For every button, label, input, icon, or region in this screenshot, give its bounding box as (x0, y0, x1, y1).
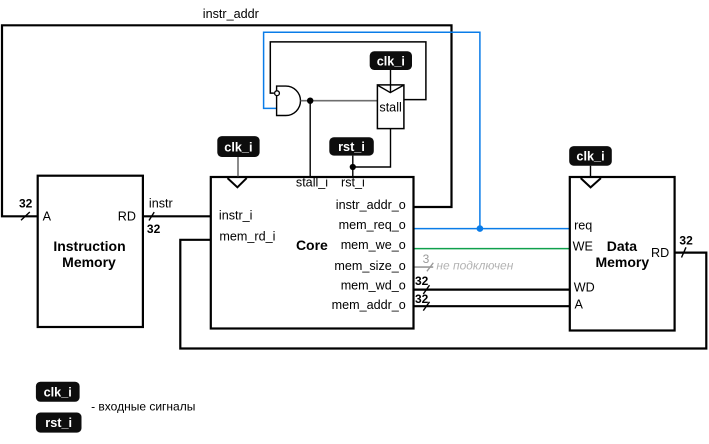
svg-text:32: 32 (679, 233, 693, 247)
svg-text:instr_addr_o: instr_addr_o (336, 198, 406, 212)
svg-text:clk_i: clk_i (44, 385, 72, 399)
node clock chevron stall (378, 85, 404, 92)
svg-text:rst_i: rst_i (338, 140, 365, 154)
svg-text:mem_rd_i: mem_rd_i (219, 230, 275, 244)
wire stall reg feedback (stall.Q -> AND inverted input) (270, 42, 426, 100)
node slash mem_addr bus (423, 302, 429, 311)
svg-text:3: 3 (423, 252, 430, 266)
svg-text:clk_i: clk_i (576, 150, 604, 164)
wire gate output (gray, to stall.D) (301, 100, 378, 102)
node slash instr bus (149, 212, 154, 220)
wire instr net (IM.RD -> Core.instr_i) (143, 215, 211, 217)
svg-text:RD: RD (651, 246, 669, 260)
port clk_i label (stall) (370, 51, 412, 70)
wire mem_wd net (Core.mem_wd_o -> DM.WD) (414, 289, 570, 291)
svg-text:Memory: Memory (62, 254, 116, 270)
port clk_i label (Core) (217, 136, 259, 157)
wire rst_i -> Core (352, 156, 354, 177)
svg-text:32: 32 (147, 222, 161, 236)
wire stall_i (junction -> Core.stall_i) (309, 101, 311, 177)
svg-text:Core: Core (296, 237, 328, 253)
svg-text:instr_i: instr_i (219, 208, 253, 222)
svg-text:mem_size_o: mem_size_o (334, 259, 405, 273)
svg-text:WE: WE (573, 240, 593, 254)
svg-text:RD: RD (118, 209, 136, 223)
wire mem_we net green (Core.mem_we_o -> DM.WE) (414, 248, 570, 250)
svg-text:clk_i: clk_i (377, 54, 405, 68)
svg-text:Memory: Memory (595, 254, 649, 270)
node slash A bus (21, 212, 30, 220)
node slash RD bus (682, 247, 687, 257)
port clk_i label (DM) (569, 146, 612, 166)
node clock chevron Core (228, 178, 247, 187)
node slash mem_size bus (427, 263, 433, 272)
wire rst branch -> stall reset (353, 129, 391, 167)
svg-text:32: 32 (415, 274, 429, 288)
svg-text:rst_i: rst_i (341, 176, 365, 190)
block Data Memory (570, 177, 675, 331)
legend clk_i label (36, 382, 80, 402)
svg-text:stall_i: stall_i (296, 176, 328, 190)
node junction stall_i (307, 98, 313, 104)
and-gate U1 (with inverted top input) (277, 86, 301, 115)
wire clk to stall (390, 70, 392, 92)
svg-text:rst_i: rst_i (45, 416, 72, 430)
svg-text:не подключен: не подключен (436, 259, 513, 273)
svg-text:Instruction: Instruction (53, 238, 125, 254)
register stall (377, 85, 404, 129)
wire mem_size_o stub (not connected) (414, 266, 434, 268)
node bubble (inverted input) (275, 91, 280, 96)
wire mem_rd net (DM.RD -> Core.mem_rd_i) (180, 240, 706, 349)
node junction blue (477, 225, 484, 232)
legend rst_i label (36, 413, 82, 433)
svg-text:mem_wd_o: mem_wd_o (341, 279, 406, 293)
wire stall feedback blue loop (mem_req -> AND gate input) (264, 32, 480, 228)
svg-text:A: A (575, 297, 584, 311)
wire instr_addr net (Core.instr_addr_o -> Instruction Memory.A) (2, 25, 452, 216)
svg-text:mem_req_o: mem_req_o (339, 218, 406, 232)
wire clk to Core (gray) (237, 157, 239, 176)
svg-text:clk_i: clk_i (224, 140, 252, 154)
wire mem_req net blue (Core.mem_req_o -> DM.req) (414, 228, 570, 230)
svg-text:req: req (574, 219, 592, 233)
svg-text:instr_addr: instr_addr (203, 7, 259, 21)
svg-text:Data: Data (607, 238, 638, 254)
svg-text:A: A (43, 209, 52, 223)
svg-text:stall: stall (379, 101, 401, 115)
wire clk to DM (590, 166, 592, 177)
svg-text:WD: WD (574, 281, 595, 295)
node clock chevron DM (581, 178, 601, 187)
svg-text:- входные сигналы: - входные сигналы (91, 400, 195, 414)
node junction rst (350, 164, 356, 170)
block Core (211, 177, 414, 329)
svg-text:mem_we_o: mem_we_o (341, 238, 406, 252)
svg-text:mem_addr_o: mem_addr_o (332, 298, 406, 312)
port rst_i label (329, 137, 374, 155)
svg-text:instr: instr (149, 197, 173, 211)
wire mem_addr net (Core.mem_addr_o -> DM.A) (414, 305, 570, 307)
svg-text:32: 32 (415, 292, 429, 306)
svg-text:32: 32 (19, 197, 33, 211)
block Instruction Memory (38, 176, 143, 327)
node slash mem_wd bus (423, 285, 429, 294)
